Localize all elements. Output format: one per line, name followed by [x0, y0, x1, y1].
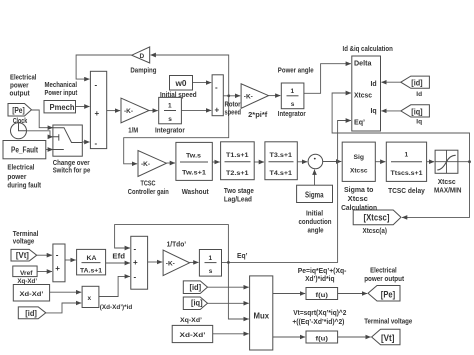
svg-text:Tw.s+1: Tw.s+1 — [182, 170, 206, 177]
svg-text:(Xd-Xd’)*id: (Xd-Xd’)*id — [100, 304, 133, 311]
label TCSC controller gain — [128, 181, 169, 196]
svg-text:Xd’)*id*iq: Xd’)*id*iq — [305, 276, 335, 283]
block sigma — [297, 185, 333, 202]
svg-text:T4.s+1: T4.s+1 — [270, 170, 293, 177]
svg-text:[id]: [id] — [190, 283, 202, 292]
junction node Eq branch — [227, 261, 230, 264]
wire Eq output to Eq input of calc block — [222, 121, 351, 263]
block fu2 — [306, 331, 338, 343]
svg-text:Iq: Iq — [416, 118, 422, 125]
svg-text:T3.s+1: T3.s+1 — [270, 152, 293, 159]
gain 1/Tdo — [163, 250, 190, 276]
label rotor speed — [225, 102, 242, 117]
svg-text:T1.s+1: T1.s+1 — [226, 152, 249, 159]
svg-text:Power input: Power input — [45, 90, 78, 97]
wire Xd-Xd 2 to mux input4 — [212, 333, 249, 335]
label electrical power output right — [364, 268, 404, 284]
svg-text:[Pe]: [Pe] — [12, 106, 25, 115]
svg-text:Change over: Change over — [53, 160, 90, 167]
svg-text:Mux: Mux — [254, 312, 270, 321]
svg-text:1/M: 1/M — [128, 128, 138, 135]
wire from [iq] to Iq port — [381, 110, 400, 112]
svg-text:s: s — [291, 101, 295, 108]
from tag [iq] mux — [183, 297, 207, 310]
svg-text:Ttscs.s+1: Ttscs.s+1 — [391, 170, 423, 177]
from tag [Vt] exciter — [11, 249, 37, 261]
sum3 — [131, 236, 148, 289]
svg-text:TCSC: TCSC — [141, 181, 156, 188]
svg-text:-K-: -K- — [244, 93, 253, 100]
wire mux to fu2 — [273, 336, 305, 338]
svg-text:Xtcsc: Xtcsc — [354, 93, 372, 100]
svg-text:Clock: Clock — [13, 118, 28, 125]
svg-text:KA: KA — [87, 255, 97, 262]
wire sigma to sum circle — [314, 170, 316, 186]
switch change over — [53, 125, 82, 156]
svg-text:Electrical: Electrical — [10, 75, 36, 82]
wire mux to fu1 — [273, 293, 305, 295]
block TCSC delay — [386, 142, 426, 181]
svg-text:Xtcsc: Xtcsc — [438, 179, 456, 186]
wire sum3 to gain 1/Tdo — [148, 261, 163, 263]
svg-text:output: output — [10, 91, 31, 98]
wire KA Efd to sum3 — [106, 262, 130, 264]
svg-text:Lag/Lead: Lag/Lead — [224, 197, 252, 204]
wire integrator2 to Delta input — [304, 64, 351, 94]
wire speed branch down to TCSC gain — [124, 96, 229, 164]
svg-text:D: D — [140, 53, 145, 60]
wire sum4 to KA — [65, 259, 76, 261]
svg-text:[Xtcsc]: [Xtcsc] — [364, 213, 390, 224]
label initial conduction angle — [299, 211, 332, 235]
block fu1 — [306, 288, 338, 300]
svg-text:-: - — [215, 83, 218, 92]
wire clock to switch control — [27, 131, 53, 137]
sum1 — [90, 71, 106, 148]
label xtcsc max min — [434, 179, 462, 195]
svg-text:Electrical: Electrical — [7, 165, 34, 172]
svg-text:Id: Id — [416, 91, 422, 98]
block lag lead 2 — [265, 142, 297, 180]
svg-text:f(u): f(u) — [316, 292, 329, 299]
svg-text:f(u): f(u) — [316, 335, 329, 342]
svg-text:MAX/MIN: MAX/MIN — [434, 187, 462, 194]
saturation block — [435, 150, 458, 173]
block w0 — [170, 76, 193, 91]
wire Eq feedback to sum3 top — [115, 225, 229, 263]
wire sum1 to gain 1/M — [107, 110, 120, 112]
wire [Vt] to sum4 — [37, 254, 52, 256]
svg-text:Pe=iq*Eq’+(Xq-: Pe=iq*Eq’+(Xq- — [298, 268, 347, 275]
svg-text:+((Eq’-Xd’*id)^2): +((Eq’-Xd’*id)^2) — [292, 318, 344, 326]
svg-text:power: power — [10, 83, 29, 90]
svg-text:x: x — [88, 295, 92, 302]
block Vref — [13, 266, 37, 277]
block Xd-Xd 1 — [13, 285, 49, 302]
svg-text:+: + — [133, 258, 138, 267]
wire washout to lag lead1 — [212, 161, 219, 163]
junction node rotor speed branch — [227, 94, 230, 97]
wire w0 to sum2 — [193, 82, 212, 84]
svg-text:Id: Id — [371, 81, 377, 88]
svg-text:[id]: [id] — [25, 309, 37, 318]
integrator3 Eq — [199, 250, 221, 277]
svg-text:Calculation: Calculation — [341, 205, 377, 212]
svg-text:1: 1 — [168, 103, 172, 110]
svg-text:1: 1 — [209, 255, 213, 262]
svg-text:Tw.s: Tw.s — [186, 153, 201, 160]
svg-text:Eq’: Eq’ — [237, 253, 248, 260]
svg-text:Terminal: Terminal — [13, 231, 39, 238]
block washout — [176, 142, 212, 180]
svg-text:+: + — [95, 109, 100, 118]
wire integrator1 to sum2 — [181, 109, 211, 111]
wire fu2 to goto Vt — [338, 336, 371, 338]
wire sum2 to gain 2*pi*f — [223, 95, 240, 97]
block sig to xtcsc — [342, 142, 375, 181]
svg-text:-K-: -K- — [124, 108, 133, 115]
svg-text:Xtcsc: Xtcsc — [348, 196, 368, 203]
from tag [id] mux — [183, 281, 207, 294]
sum4 — [53, 244, 65, 282]
svg-text:+: + — [215, 106, 220, 115]
junction node Xtcsc branch — [468, 160, 471, 163]
from tag [iq] upper — [401, 105, 430, 117]
svg-text:Damping: Damping — [130, 67, 156, 74]
label mechanical power input — [45, 82, 78, 97]
svg-text:Sig: Sig — [354, 154, 365, 161]
svg-text:[iq]: [iq] — [411, 107, 423, 116]
svg-text:Delta: Delta — [354, 61, 372, 68]
svg-text:angle: angle — [308, 228, 324, 235]
svg-text:Id &iq calculation: Id &iq calculation — [343, 46, 393, 53]
wire Xd-Xd 1 to multiply — [50, 291, 82, 293]
sum circle — [308, 154, 323, 169]
wire multiply to sum3 bottom — [99, 276, 130, 296]
wire Pe_Fault to switch in3 — [46, 149, 53, 151]
wire Eq branch to mux input3 — [228, 262, 248, 319]
svg-text:Vref: Vref — [20, 270, 33, 277]
svg-text:TA.s+1: TA.s+1 — [80, 268, 102, 275]
wire laglead1 to laglead2 — [254, 161, 264, 163]
block lag lead 1 — [221, 142, 255, 180]
svg-text:[id]: [id] — [411, 79, 423, 88]
svg-text:Xtcsc(a): Xtcsc(a) — [363, 228, 388, 235]
svg-text:-: - — [134, 244, 137, 253]
wire from [id] to Id port — [381, 81, 400, 83]
label Pe equation — [298, 268, 347, 283]
clock — [11, 123, 27, 139]
svg-text:Two stage: Two stage — [224, 188, 254, 195]
wire gain 1/Tdo to integrator3 — [190, 261, 199, 263]
integrator1 — [159, 97, 182, 123]
svg-text:Mechanical: Mechanical — [45, 82, 78, 89]
svg-text:Integrator: Integrator — [278, 111, 306, 118]
label Vt equation — [292, 309, 346, 326]
svg-text:s: s — [209, 268, 213, 275]
block Xd-Xd 2 — [172, 325, 213, 342]
wire sum circle to Sig Xtcsc — [323, 161, 342, 163]
wire TCSC gain to washout — [166, 162, 175, 164]
svg-text:[Vt]: [Vt] — [16, 251, 29, 260]
from tag [id] upper — [401, 76, 430, 88]
wire switch to sum1 bottom — [82, 141, 89, 143]
svg-text:-: - — [134, 273, 137, 282]
svg-text:[Vt]: [Vt] — [381, 333, 394, 344]
block Pe_Fault — [3, 141, 46, 159]
gain 2*pi*f — [241, 84, 268, 109]
svg-text:TCSC delay: TCSC delay — [388, 188, 425, 195]
svg-text:1: 1 — [291, 88, 295, 95]
label sigma to xtcsc calculation — [341, 187, 377, 212]
svg-text:Sigma: Sigma — [305, 190, 324, 199]
svg-text:Xq-Xd’: Xq-Xd’ — [17, 278, 37, 285]
wire saturation branch to goto Xtcsc — [402, 162, 470, 218]
label electrical power during fault — [7, 165, 41, 190]
wire gain 1/M to integrator1 — [149, 110, 158, 112]
svg-text:-K-: -K- — [141, 161, 150, 168]
svg-text:Initial: Initial — [306, 211, 323, 218]
wire damping output to sum1 top — [76, 55, 132, 79]
svg-text:-K-: -K- — [166, 261, 175, 268]
svg-text:Pmech: Pmech — [50, 103, 75, 112]
wire Pmech to sum1 middle — [76, 106, 90, 108]
svg-text:conduction: conduction — [299, 219, 332, 226]
goto tag [Xtcsc] — [353, 210, 401, 225]
integrator2 — [281, 83, 304, 109]
label change over switch — [53, 160, 91, 175]
wire Vref to sum4 — [37, 271, 52, 273]
svg-text:voltage: voltage — [13, 239, 35, 246]
from tag [id] exciter — [18, 307, 46, 319]
svg-text:Integrator: Integrator — [155, 128, 185, 135]
wire speed branch up to damping — [151, 55, 229, 96]
wire [Pe] to switch in1 — [32, 110, 53, 128]
svg-text:Xtcsc: Xtcsc — [350, 168, 368, 175]
wire gain 2*pi*f to integrator2 — [269, 95, 281, 97]
wire Sig Xtcsc to TCSC delay — [375, 161, 385, 163]
svg-text:1: 1 — [405, 152, 409, 159]
svg-text:Washout: Washout — [182, 189, 210, 196]
mux block — [250, 276, 273, 350]
label terminal voltage — [13, 231, 39, 246]
wire fu1 to goto Pe — [338, 293, 368, 295]
gain damping D — [132, 47, 150, 63]
svg-text:Electrical: Electrical — [370, 268, 397, 275]
label electrical power output — [10, 75, 37, 98]
svg-text:speed: speed — [225, 110, 242, 117]
svg-text:[Pe]: [Pe] — [381, 290, 395, 301]
wire TCSC delay to saturation — [427, 161, 435, 163]
svg-text:Vt=sqrt(Xq’*iq)^2: Vt=sqrt(Xq’*iq)^2 — [293, 309, 346, 317]
svg-text:-: - — [95, 81, 98, 90]
svg-text:Rotor: Rotor — [225, 102, 241, 109]
svg-text:Power angle: Power angle — [278, 68, 314, 75]
wire [iq] to mux input2 — [208, 302, 249, 304]
gain 1/M — [121, 98, 149, 123]
svg-text:s: s — [168, 116, 172, 123]
goto tag [Vt] — [372, 329, 400, 345]
svg-text:Iq: Iq — [371, 108, 377, 115]
svg-text:power output: power output — [364, 276, 404, 283]
block Pmech — [44, 101, 76, 113]
svg-text:during fault: during fault — [7, 183, 41, 190]
svg-text:1/Tdo’: 1/Tdo’ — [167, 242, 187, 249]
svg-text:+: + — [55, 264, 60, 273]
svg-text:w0: w0 — [174, 79, 187, 88]
svg-text:Eq’: Eq’ — [354, 120, 365, 127]
svg-text:Sigma to: Sigma to — [344, 187, 373, 194]
svg-text:-: - — [56, 251, 59, 260]
from tag [Pe] — [8, 104, 32, 117]
svg-text:Controller gain: Controller gain — [128, 189, 169, 196]
svg-text:Efd: Efd — [112, 254, 125, 261]
svg-text:2*pi*f: 2*pi*f — [248, 112, 268, 119]
wire saturation to Xtcsc input — [332, 93, 469, 162]
svg-text:Xd-Xd’: Xd-Xd’ — [20, 291, 44, 298]
wire [id] to multiply — [46, 303, 81, 313]
multiply block — [82, 286, 99, 307]
wire [id] to mux input1 — [208, 286, 249, 288]
svg-text:power: power — [7, 174, 26, 181]
svg-text:[iq]: [iq] — [191, 299, 203, 308]
svg-text:Xd-Xd’: Xd-Xd’ — [180, 332, 206, 339]
gain TCSC controller — [138, 151, 166, 177]
wire laglead2 to sum circle — [297, 161, 307, 163]
svg-text:T2.s+1: T2.s+1 — [226, 170, 249, 177]
svg-text:Pe_Fault: Pe_Fault — [11, 145, 38, 154]
block KA — [77, 249, 106, 275]
svg-text:Terminal voltage: Terminal voltage — [364, 318, 412, 325]
svg-text:Initial speed: Initial speed — [160, 92, 197, 99]
block Id iq calculation — [352, 56, 381, 131]
label two stage lag lead — [224, 188, 254, 203]
svg-text:Switch for pe: Switch for pe — [53, 168, 91, 175]
svg-text:Xq-Xd’: Xq-Xd’ — [180, 317, 202, 324]
sum2 rotor speed — [212, 75, 223, 116]
goto tag [Pe] — [368, 286, 400, 302]
svg-text:-: - — [95, 139, 98, 148]
